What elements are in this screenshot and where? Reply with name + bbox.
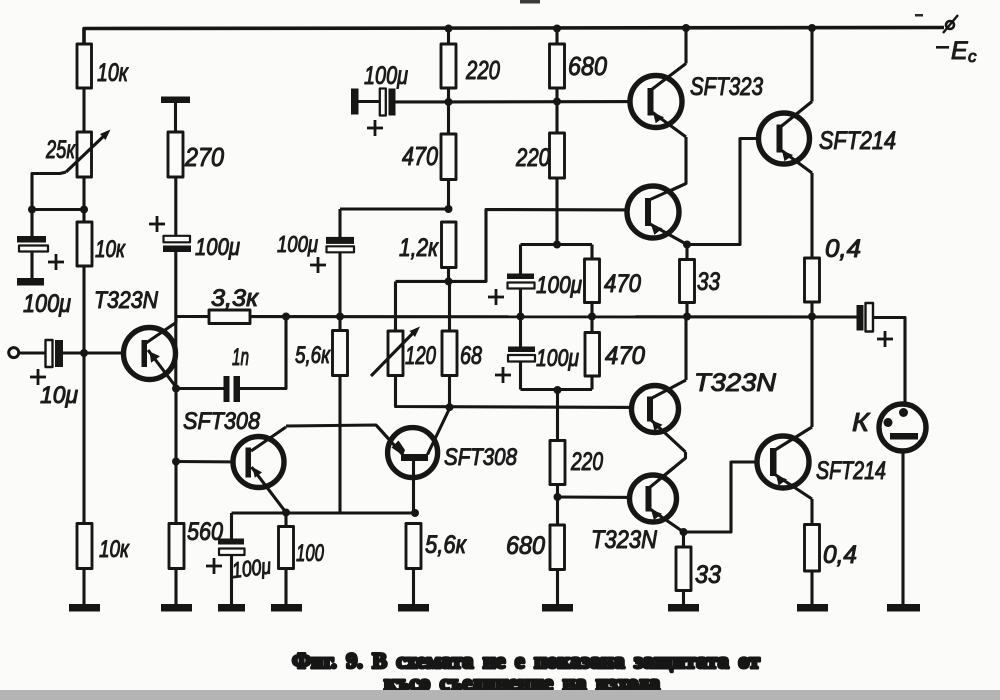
- svg-text:25к: 25к: [45, 136, 76, 164]
- capacitor 100u (emitter bypass bottom): [230, 513, 233, 539]
- ground (left column): [69, 604, 100, 612]
- svg-text:33: 33: [697, 268, 720, 296]
- wire column x=448.5 top: [447, 29, 450, 102]
- capacitor 100u (emitter bypass left): [164, 236, 191, 243]
- transistor SFT308 (second, rotated): [388, 428, 438, 478]
- node bus/0,4 junction: [808, 313, 816, 321]
- capacitor output electrolytic: [857, 305, 864, 331]
- wire SFT214 emitter to 0,4: [810, 173, 813, 258]
- ground (0,4 bottom): [797, 604, 828, 612]
- capacitor 1n: [224, 376, 230, 402]
- node base junction SFT308: [172, 458, 180, 466]
- svg-text:100μ: 100μ: [364, 62, 408, 90]
- resistor 100: [284, 513, 287, 527]
- resistor 10k (bottom left): [77, 524, 92, 569]
- resistor 220 (third): [550, 441, 565, 485]
- wire cap to base T323N: [63, 351, 141, 354]
- node bus/470: [588, 313, 596, 321]
- ground (100): [271, 604, 302, 612]
- wire y244.5: [521, 243, 593, 246]
- node 470/1,2k junction: [445, 205, 453, 213]
- capacitor 100u (B, bus to y389): [519, 317, 522, 347]
- ground (33 bottom): [668, 604, 699, 612]
- resistor 470 (first): [447, 102, 450, 134]
- node rail/220 junction: [445, 25, 453, 33]
- svg-text:100μ: 100μ: [231, 553, 273, 583]
- transistor SFT323 (second driver): [627, 186, 679, 238]
- svg-text:T323N: T323N: [94, 287, 159, 314]
- svg-text:680: 680: [506, 532, 545, 560]
- svg-text:SFT214: SFT214: [819, 127, 896, 155]
- resistor 10k (middle left): [77, 222, 92, 266]
- ground (680): [542, 604, 573, 612]
- wire SFT214 collector to rail: [810, 28, 813, 102]
- wire 120 bottom to base bus: [396, 376, 648, 408]
- svg-text:E: E: [951, 37, 968, 65]
- resistor 220 (second): [550, 133, 565, 178]
- svg-text:470: 470: [604, 270, 641, 298]
- node emitter junction y=388.5: [172, 385, 180, 393]
- node emitter junction y532: [680, 528, 688, 536]
- scan artifact bottom band: [0, 690, 1000, 700]
- svg-text:SFT308: SFT308: [183, 408, 261, 435]
- node 220/470/cap junction: [445, 98, 453, 106]
- node wiper/cap junction: [28, 206, 36, 214]
- wire 5,6k bottom long stub to y=513: [338, 376, 341, 514]
- svg-text:120: 120: [405, 342, 436, 370]
- node base line / divider column: [80, 349, 88, 357]
- svg-text:33: 33: [695, 561, 721, 589]
- svg-text:100μ: 100μ: [536, 345, 579, 372]
- wire SFT214-2 emitter to 0,4: [810, 499, 813, 525]
- svg-text:560: 560: [187, 518, 223, 546]
- wire base T323N-3: [558, 495, 647, 499]
- wire input to cap: [19, 351, 46, 354]
- svg-text:5,6к: 5,6к: [295, 342, 331, 369]
- node SFT308 emitter junction: [282, 509, 290, 517]
- wire connector to ground: [901, 451, 904, 605]
- svg-text:0,4: 0,4: [823, 541, 857, 569]
- node bus/1n junction: [282, 313, 290, 321]
- node bus/5,6k junction: [336, 313, 344, 321]
- svg-text:c: c: [968, 47, 977, 66]
- transistor SFT323 (top driver): [630, 76, 682, 128]
- resistor 5,6k (second): [406, 524, 421, 569]
- wire SFT323 emitter to SFT323-2 collector: [652, 137, 686, 200]
- wire SFT214 base (bottom): [684, 462, 758, 532]
- connector K (output socket): [879, 404, 926, 451]
- svg-text:К: К: [852, 407, 871, 437]
- ground (100u cap): [218, 604, 245, 612]
- svg-text:100: 100: [296, 540, 324, 567]
- resistor 10k (top left): [77, 44, 92, 88]
- wire down to 220: [556, 390, 559, 441]
- node bus/capA: [517, 313, 525, 321]
- wire top supply rail: [84, 28, 944, 45]
- svg-text:1n: 1n: [232, 344, 249, 371]
- resistor 33 (top): [685, 245, 688, 260]
- resistor 560: [169, 524, 184, 569]
- node y244.5 junction: [553, 241, 561, 249]
- node 1,2k bottom junction: [445, 277, 453, 285]
- wire emitter node to 1n cap: [176, 387, 224, 390]
- capacitor 100u (far left electrolytic): [30, 210, 33, 237]
- wire cap to node: [396, 100, 449, 103]
- svg-text:5,6к: 5,6к: [425, 531, 467, 559]
- svg-text:470: 470: [605, 342, 645, 370]
- transistor SFT214 (top): [759, 113, 810, 164]
- wire wiper node to column: [32, 208, 84, 211]
- wire SFT214 base (top): [687, 139, 759, 245]
- wire 270 to cap: [174, 177, 177, 236]
- svg-text:0,4: 0,4: [825, 235, 861, 263]
- wire column x=557 top: [555, 29, 558, 245]
- svg-text:220: 220: [465, 55, 500, 85]
- resistor 33 (bottom): [682, 532, 685, 547]
- capacitor 100u (A, node to bus): [519, 245, 522, 274]
- capacitor 100u (across 1,2k node to bus): [338, 209, 341, 237]
- svg-text:10μ: 10μ: [40, 382, 78, 409]
- resistor 680 (top): [550, 44, 565, 88]
- node emitter junction y244.5: [683, 241, 691, 249]
- node 680/220/base junction: [553, 98, 561, 106]
- resistor 270: [168, 132, 183, 177]
- wire base SFT308: [176, 460, 246, 464]
- resistor 68: [448, 281, 451, 331]
- svg-text:10к: 10к: [95, 236, 126, 263]
- ground (connector): [887, 604, 920, 612]
- resistor 220 (top): [441, 44, 456, 88]
- node y513/SFT308-2 base: [411, 509, 419, 517]
- svg-text:SFT214: SFT214: [816, 457, 886, 485]
- resistor 680 (second): [550, 525, 565, 570]
- node column y=209.5: [80, 206, 88, 214]
- svg-text:220: 220: [570, 448, 603, 476]
- transistor T323N input: [124, 328, 176, 380]
- node rail/SFT214 collector junction: [808, 24, 816, 32]
- transistor SFT308 (first): [233, 437, 284, 488]
- speck scan noise: [520, 0, 540, 4]
- wire SFT308 collector link to SFT308-2: [286, 425, 404, 456]
- transistor T323N (second stage): [632, 386, 679, 433]
- speck scan noise top: [915, 14, 923, 17]
- svg-text:3,3к: 3,3к: [211, 285, 260, 312]
- resistor 0,4 (bottom): [805, 525, 820, 572]
- transistor SFT214 (bottom): [757, 436, 809, 488]
- ground (5,6k): [398, 604, 429, 612]
- wire T323N collector to bus: [174, 317, 177, 323]
- node y389.5/220 junction: [554, 386, 562, 394]
- resistor 470 (second): [590, 245, 593, 260]
- svg-text:10к: 10к: [97, 59, 129, 87]
- node rail/SFT323 collector junction: [682, 24, 690, 32]
- wire left column x=84: [82, 29, 85, 354]
- capacitor 100u (top horizontal): [351, 89, 359, 115]
- svg-text:Т323N: Т323N: [591, 526, 658, 554]
- resistor 5,6k (feedback): [333, 331, 348, 376]
- svg-text:SFT308: SFT308: [444, 444, 518, 471]
- node 220/680 divider junction: [554, 493, 562, 501]
- node bus/33 junction: [683, 313, 691, 321]
- wire jog to SFT323-2 base: [449, 210, 647, 282]
- terminal input: [9, 348, 19, 358]
- wire output cap to connector: [873, 318, 905, 405]
- svg-text:68: 68: [460, 342, 482, 370]
- wire SFT214-2 collector to bus: [810, 317, 813, 428]
- wire 270 column top bar: [161, 97, 190, 104]
- wire SFT323 collector to rail: [684, 28, 687, 64]
- node y408 junction 68/SFT308-2 collector: [446, 403, 454, 411]
- resistor 0,4 (top): [805, 258, 820, 302]
- wire 25k wiper to left: [32, 172, 66, 210]
- svg-text:100μ: 100μ: [195, 234, 240, 261]
- wire node to bypass cap: [340, 207, 449, 210]
- svg-text:470: 470: [402, 141, 438, 171]
- wire y389.5: [521, 388, 593, 391]
- svg-text:SFT323: SFT323: [690, 73, 763, 101]
- resistor 3,3k: [209, 310, 250, 324]
- transistor T323N (third): [630, 475, 677, 522]
- resistor 1,2k: [442, 222, 457, 268]
- ground (560): [161, 604, 192, 612]
- svg-text:1,2к: 1,2к: [399, 234, 439, 262]
- svg-text:T323N: T323N: [694, 369, 777, 397]
- wire 1,2k bottom to 120 pot: [396, 280, 449, 283]
- svg-text:220: 220: [515, 144, 550, 172]
- wire node to 680 junction and SFT323 base: [449, 100, 649, 104]
- terminal -Ec supply: [946, 21, 954, 29]
- svg-text:680: 680: [568, 51, 607, 81]
- wire cap down to emitter node: [174, 252, 177, 389]
- label -Ec: [936, 46, 949, 49]
- wire 1n to bus: [240, 317, 286, 389]
- svg-text:10к: 10к: [99, 536, 130, 563]
- potentiometer 120: [394, 282, 397, 332]
- potentiometer 25k: [77, 132, 92, 177]
- capacitor 10u input coupling: [46, 340, 53, 367]
- svg-text:100μ: 100μ: [23, 290, 71, 318]
- resistor 470 (third, bus to y389): [590, 317, 593, 333]
- svg-text:100μ: 100μ: [536, 272, 582, 299]
- wire T323N collector to bus: [684, 317, 687, 381]
- svg-text:100μ: 100μ: [277, 231, 318, 257]
- wire T323N emitter to T323N-3 collector: [649, 452, 686, 488]
- wire y513 node: [232, 511, 416, 514]
- node rail/680 junction: [553, 25, 561, 33]
- main bus y=316.5: [176, 315, 857, 319]
- wire emitter column down: [174, 389, 177, 524]
- svg-text:270: 270: [184, 142, 224, 172]
